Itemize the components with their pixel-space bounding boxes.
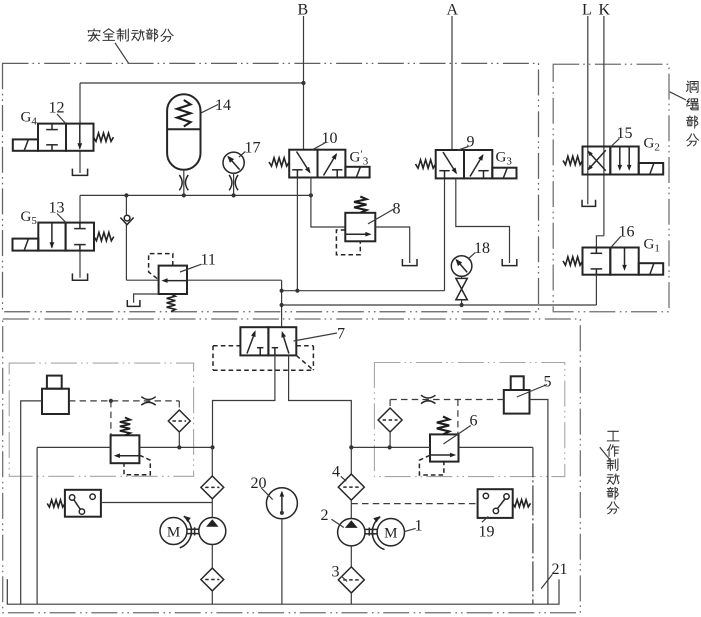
svg-text:M: M xyxy=(167,524,180,540)
svg-text:5: 5 xyxy=(544,374,552,391)
svg-text:18: 18 xyxy=(474,240,490,257)
svg-text:B: B xyxy=(298,2,309,19)
svg-text:M: M xyxy=(384,526,397,542)
svg-text:20: 20 xyxy=(251,475,267,492)
svg-text:A: A xyxy=(447,2,459,19)
svg-text:9: 9 xyxy=(467,134,475,151)
svg-text:2: 2 xyxy=(321,507,329,524)
svg-text:19: 19 xyxy=(479,524,495,541)
svg-text:3: 3 xyxy=(332,564,340,581)
svg-text:17: 17 xyxy=(245,140,261,157)
svg-text:14: 14 xyxy=(215,97,231,114)
svg-text:16: 16 xyxy=(619,224,635,241)
svg-text:21: 21 xyxy=(552,561,568,578)
svg-text:13: 13 xyxy=(49,200,65,217)
svg-text:L: L xyxy=(582,2,592,19)
svg-text:10: 10 xyxy=(322,130,338,147)
svg-text:4: 4 xyxy=(332,464,340,481)
svg-text:7: 7 xyxy=(337,326,345,343)
svg-text:6: 6 xyxy=(470,413,478,430)
svg-text:11: 11 xyxy=(201,252,216,269)
svg-text:12: 12 xyxy=(49,100,65,117)
svg-text:K: K xyxy=(599,2,611,19)
svg-text:1: 1 xyxy=(415,518,423,535)
